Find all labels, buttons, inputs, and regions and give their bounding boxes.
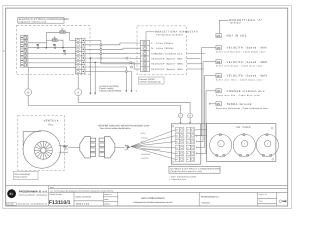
terminal M2 bbox=[216, 89, 265, 97]
label MORSETTIERA TERMOSTATI bbox=[146, 31, 199, 41]
label MORSETTIERA A bbox=[219, 19, 262, 34]
bus vertical to strip row5 bbox=[205, 91, 207, 154]
wire fan-out to strip row1 bbox=[131, 130, 176, 147]
svg-text:F - Linea 230Vac: F - Linea 230Vac bbox=[151, 42, 174, 45]
border frame inner bbox=[6, 8, 288, 206]
wire fan-out to strip row5 bbox=[131, 147, 176, 154]
wire drop from B5 bbox=[89, 58, 91, 92]
svg-text:F1: F1 bbox=[37, 44, 39, 47]
terminal M1 bbox=[216, 102, 269, 110]
strip cell pins bbox=[181, 129, 195, 161]
wire row 6 bbox=[28, 62, 76, 64]
svg-text:Thermostat terminal: Thermostat terminal bbox=[156, 33, 183, 36]
wire B6 to MAX bbox=[85, 63, 141, 70]
fold mark bbox=[3, 50, 6, 52]
wire B8 drop to supply bbox=[85, 71, 132, 90]
wire strip to FR COND bbox=[195, 129, 207, 131]
svg-text:CON. FISSAGGIO: CON. FISSAGGIO bbox=[14, 173, 30, 176]
wire MED to M4 bus bbox=[187, 63, 203, 65]
svg-text:M1: M1 bbox=[217, 103, 221, 106]
svg-text:Comune/Common wire: Comune/Common wire bbox=[142, 148, 160, 151]
svg-text:Etichetta "SPEED": Etichetta "SPEED" bbox=[140, 78, 156, 81]
svg-text:PROGRAMMA 31 s.r.l.: PROGRAMMA 31 s.r.l. bbox=[19, 190, 48, 194]
wire row 4 bbox=[28, 53, 76, 55]
svg-text:Fan: Fan bbox=[49, 124, 54, 127]
probe circle S bbox=[188, 113, 193, 124]
svg-text:M4: M4 bbox=[217, 61, 221, 64]
terminal M6 bbox=[216, 34, 247, 38]
svg-text:MORSETTIERA "A": MORSETTIERA "A" bbox=[229, 19, 263, 22]
fan dashed enclosure bbox=[18, 116, 65, 171]
svg-text:M3: M3 bbox=[176, 140, 178, 143]
logo bbox=[7, 189, 49, 205]
svg-text:- VELOCITA' /Speed - MAX: - VELOCITA' /Speed - MAX bbox=[224, 75, 268, 78]
svg-text:Green wire Giallo/verde - Cabl: Green wire Giallo/verde - Cable Yellow/g… bbox=[216, 107, 269, 110]
svg-text:- VELOCITA' /Speed - MIN: - VELOCITA' /Speed - MIN bbox=[224, 47, 267, 50]
svg-text:MT: MT bbox=[176, 158, 178, 161]
svg-text:M2: M2 bbox=[176, 146, 178, 149]
junction bbox=[90, 57, 91, 58]
junction bbox=[95, 62, 96, 63]
svg-text:"SPEED" identification tag: "SPEED" identification tag bbox=[140, 81, 161, 84]
wire COMUNE to M2 bus bbox=[187, 52, 206, 54]
svg-text:- VELOCITA' /Speed - MED: - VELOCITA' /Speed - MED bbox=[224, 61, 268, 64]
wire M1 ground run bbox=[209, 103, 215, 105]
svg-text:M5: M5 bbox=[176, 129, 178, 132]
strip cells right column bbox=[186, 128, 195, 162]
svg-text:Green wire Nero - Cable Black: Green wire Nero - Cable Black color bbox=[216, 79, 263, 82]
svg-text:Fixing connector: Fixing connector bbox=[14, 176, 28, 179]
svg-text:G/VERDE: G/VERDE bbox=[141, 157, 150, 160]
svg-text:Capacitor/box electric unit: Capacitor/box electric unit bbox=[170, 170, 202, 173]
wire hop bumps bbox=[100, 44, 133, 73]
svg-text:See sticker cables identificat: See sticker cables identification bbox=[100, 127, 131, 130]
terminal block C (thermostat strip) bbox=[141, 40, 150, 71]
wire strip to FR COND 2 bbox=[195, 135, 207, 137]
fan motor FM3 bbox=[256, 134, 278, 157]
svg-text:M1: M1 bbox=[176, 152, 178, 155]
svg-text:PROGRAMMA S.r.l.: PROGRAMMA S.r.l. bbox=[201, 196, 220, 199]
dashed enclosure: thermostat terminal bbox=[137, 26, 187, 75]
board strip label box bbox=[169, 166, 220, 181]
wire M3 stub bbox=[205, 75, 216, 77]
svg-text:SCHEDA ELETTRICA CONDENSATORE: SCHEDA ELETTRICA CONDENSATORE bbox=[170, 167, 220, 170]
wire B5 to MIN bbox=[85, 57, 141, 60]
connector circle B bbox=[25, 67, 32, 95]
svg-text:31: 31 bbox=[9, 192, 13, 196]
strip tiny texts bbox=[176, 129, 190, 162]
wire row 5 bbox=[28, 57, 76, 59]
svg-text:VELOCITA' /Speed - MAX: VELOCITA' /Speed - MAX bbox=[151, 68, 183, 71]
wire fan-out to strip row3 bbox=[131, 142, 176, 147]
FR COND box bbox=[201, 124, 276, 162]
wire M5 stub bbox=[202, 47, 216, 49]
splice contact K3 bbox=[63, 49, 65, 54]
power supply label ALIMENTAZIONE bbox=[99, 85, 138, 93]
dashed enclosure: condenser electric board bbox=[16, 26, 90, 75]
staircase wires between board and thermostat strip bbox=[85, 40, 141, 92]
wire branch to protector P2 bbox=[46, 39, 52, 41]
svg-text:FR. COND: FR. COND bbox=[237, 126, 251, 129]
projection symbol bbox=[279, 200, 287, 203]
svg-text:Capacitor electric unit: Capacitor electric unit bbox=[19, 21, 47, 24]
svg-text:Green wire Marrone - Cable Bro: Green wire Marrone - Cable Brown color bbox=[216, 51, 266, 54]
cable arrow from fan bbox=[63, 145, 80, 149]
svg-text:COMUNE / Common wire: COMUNE / Common wire bbox=[151, 52, 183, 55]
splice contact K1 bbox=[37, 44, 39, 49]
wire from B to probe H bbox=[28, 96, 180, 114]
wire MIN to M5 bus bbox=[187, 58, 201, 60]
svg-text:M4: M4 bbox=[176, 135, 178, 138]
terminal M3 bbox=[216, 74, 268, 82]
fan label box bbox=[13, 172, 38, 180]
wire from A to probe S bbox=[78, 96, 190, 114]
terminal M4 bbox=[216, 60, 268, 68]
power supply arrows bbox=[90, 90, 132, 94]
svg-text:= Capacitor box: = Capacitor box bbox=[169, 178, 186, 181]
svg-text:VEDERE ADESIVE IDENTIFICAZIONE: VEDERE ADESIVE IDENTIFICAZIONE CAVI bbox=[98, 124, 150, 127]
wire drop from B6 bbox=[94, 63, 96, 93]
svg-text:Terminal: Terminal bbox=[230, 22, 242, 25]
connector circle A bbox=[75, 74, 82, 96]
terminal block B (right strip of condenser board) bbox=[75, 38, 85, 73]
svg-text:N - Linea 230Vac: N - Linea 230Vac bbox=[151, 47, 174, 50]
svg-text:M6: M6 bbox=[217, 35, 221, 38]
strip cells left column bbox=[175, 128, 184, 162]
splice contact K2 bbox=[53, 44, 55, 49]
svg-text:DATA: C/07/2010: DATA: C/07/2010 bbox=[76, 195, 92, 198]
junction bbox=[46, 47, 48, 49]
tag box under thermostat strip bbox=[139, 77, 165, 84]
svg-text:M3: M3 bbox=[217, 75, 221, 78]
probe circle H bbox=[178, 113, 183, 124]
wire M4 stub bbox=[203, 61, 216, 63]
wire B4 to COMUNE bbox=[85, 52, 141, 54]
svg-text:230Vac/1ph/50-60Hz: 230Vac/1ph/50-60Hz bbox=[99, 90, 121, 93]
cable arrow to fan-out bbox=[115, 145, 130, 149]
svg-text:Standard: Standard bbox=[202, 201, 210, 204]
wire loop to protector P1 bbox=[46, 33, 59, 48]
junction bbox=[62, 47, 64, 49]
border frame outer bbox=[3, 6, 292, 209]
wire B1 reroute down bbox=[85, 40, 141, 63]
svg-text:VENTOLA: VENTOLA bbox=[44, 120, 59, 123]
svg-text:MARRONE: MARRONE bbox=[141, 153, 151, 156]
terminal block A (left strip) bbox=[21, 35, 28, 67]
thermal protector P1 bbox=[60, 29, 66, 34]
svg-text:- COMUNE /Common wire: - COMUNE /Common wire bbox=[224, 90, 265, 93]
svg-text:- TERRA /Ground: - TERRA /Ground bbox=[224, 103, 252, 106]
blower impeller bbox=[34, 141, 52, 159]
connector CN1 (from fan) bbox=[80, 137, 96, 158]
svg-text:M5: M5 bbox=[217, 47, 221, 50]
terminal A pin circles bbox=[24, 36, 26, 66]
svg-text:Elettronica industriale - Refr: Elettronica industriale - Refrigerazione bbox=[19, 193, 48, 196]
wire fan-out to strip row6 bbox=[131, 147, 176, 160]
wire M2 stub bbox=[206, 90, 216, 92]
svg-text:MORSETTIERA TERMOSTATI: MORSETTIERA TERMOSTATI bbox=[155, 31, 199, 34]
svg-text:NERO: NERO bbox=[141, 132, 147, 135]
internal wiring of condenser board bbox=[28, 33, 76, 68]
wire fan-out to strip row4 bbox=[131, 147, 176, 148]
blower housing bbox=[23, 131, 68, 169]
svg-text:Green wire Blu - Cable Blue co: Green wire Blu - Cable Blue color bbox=[216, 94, 261, 97]
wire row 7 bbox=[28, 66, 76, 68]
fan motor FM1 bbox=[210, 134, 232, 157]
svg-text:Green wire Grigio - Cable Grey: Green wire Grigio - Cable Grey color bbox=[216, 65, 263, 68]
title block bbox=[6, 186, 288, 206]
svg-text:B: B bbox=[27, 90, 29, 94]
label box: SCHEDA ELETTRICA CONDENSATORE bbox=[18, 18, 70, 24]
svg-text:F13110/1: F13110/1 bbox=[49, 200, 71, 206]
wire MAX to M3 bus bbox=[187, 68, 204, 70]
board strip (bottom connector strip) bbox=[171, 124, 201, 164]
svg-text:20137 MILANO - VIA OLTROCCHI,: 20137 MILANO - VIA OLTROCCHI, 4/6 bbox=[18, 203, 47, 206]
svg-text:VELOCITA' /Speed - MIN: VELOCITA' /Speed - MIN bbox=[151, 58, 182, 61]
wire B3 to N bbox=[85, 48, 141, 49]
thermal protector P2 bbox=[52, 37, 57, 42]
svg-text:VELOCITA' /Speed - MED: VELOCITA' /Speed - MED bbox=[151, 63, 183, 66]
wire fan-out to strip row2 bbox=[131, 136, 176, 147]
terminal M5 bbox=[216, 46, 267, 54]
svg-text:ARIA CONDIZIONATA: ARIA CONDIZIONATA bbox=[141, 197, 165, 200]
wire bus bends into strip bbox=[197, 135, 207, 155]
wire main bus bbox=[28, 47, 76, 49]
svg-text:F3: F3 bbox=[63, 49, 65, 52]
svg-text:A: A bbox=[77, 90, 79, 94]
wire colour tags bbox=[141, 132, 161, 160]
svg-text:F2: F2 bbox=[53, 44, 55, 47]
svg-text:- Collegamento schede/condens: - Collegamento schede/condensatore fan c… bbox=[132, 201, 174, 204]
svg-text:xxx - Con filo Agg.to alla des: xxx - Con filo Agg.to alla designazione … bbox=[50, 189, 113, 192]
bus vertical to strip row4 bbox=[204, 76, 206, 148]
svg-text:TAVOLA: 4 di 4: TAVOLA: 4 di 4 bbox=[76, 202, 90, 205]
wire B7 drop to supply bbox=[85, 67, 126, 90]
connector CN2 (to board) bbox=[99, 137, 115, 158]
svg-text:M2: M2 bbox=[217, 90, 221, 93]
bus vertical to strip row2 bbox=[201, 48, 203, 136]
svg-text:- NOT IN USE: - NOT IN USE bbox=[224, 35, 247, 38]
wire B2 to F bbox=[85, 43, 141, 45]
fan motor FM2 bbox=[233, 134, 255, 157]
bus vertical to strip row3 bbox=[202, 62, 204, 142]
svg-text:GRIGIO: GRIGIO bbox=[141, 136, 148, 139]
